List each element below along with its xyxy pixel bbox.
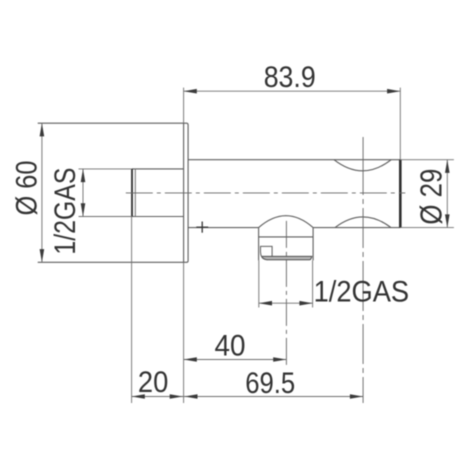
svg-text:1/2GAS: 1/2GAS bbox=[314, 275, 410, 308]
svg-text:83.9: 83.9 bbox=[264, 61, 316, 94]
svg-text:1/2GAS: 1/2GAS bbox=[49, 168, 82, 255]
svg-text:Ø 60: Ø 60 bbox=[11, 161, 44, 216]
svg-text:20: 20 bbox=[138, 366, 168, 399]
svg-text:Ø 29: Ø 29 bbox=[413, 169, 448, 225]
svg-text:69.5: 69.5 bbox=[245, 367, 295, 400]
svg-text:40: 40 bbox=[215, 329, 246, 362]
